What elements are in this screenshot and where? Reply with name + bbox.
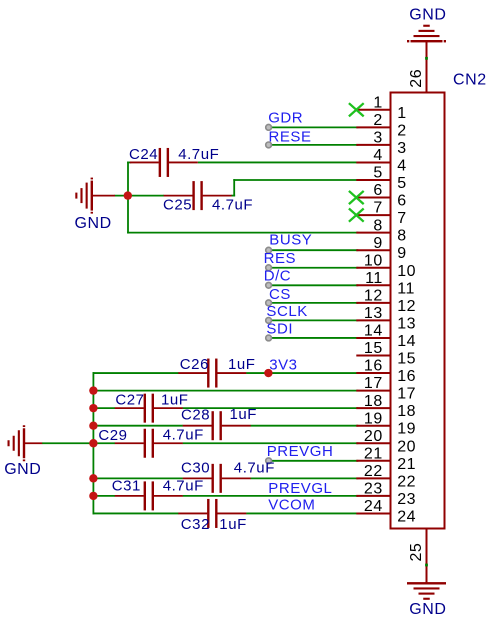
svg-text:11: 11 [365,270,383,287]
svg-text:7: 7 [373,200,382,217]
svg-text:5: 5 [373,165,382,182]
svg-text:22: 22 [397,473,416,490]
svg-text:2: 2 [373,112,382,129]
svg-text:8: 8 [373,217,382,234]
svg-text:1uF: 1uF [230,406,258,423]
svg-text:4: 4 [397,157,406,174]
svg-text:GND: GND [409,601,446,618]
svg-text:18: 18 [364,393,383,410]
svg-text:10: 10 [364,252,383,269]
svg-text:4.7uF: 4.7uF [178,146,219,163]
svg-text:15: 15 [364,340,383,357]
svg-text:4.7uF: 4.7uF [163,427,204,444]
svg-text:7: 7 [397,210,406,227]
svg-text:13: 13 [364,305,383,322]
svg-text:18: 18 [397,403,416,420]
svg-text:22: 22 [364,463,383,480]
svg-text:C32: C32 [181,516,210,533]
svg-text:C24: C24 [129,146,158,163]
svg-text:PREVGL: PREVGL [268,480,332,497]
svg-text:14: 14 [364,323,383,340]
svg-text:17: 17 [364,375,383,392]
svg-text:1uF: 1uF [219,516,247,533]
svg-text:25: 25 [408,543,425,562]
svg-text:C30: C30 [181,460,210,477]
svg-text:14: 14 [397,333,416,350]
svg-text:5: 5 [397,175,406,192]
svg-text:12: 12 [364,287,383,304]
svg-text:15: 15 [397,351,416,368]
svg-text:24: 24 [397,508,416,525]
svg-text:C26: C26 [180,356,209,373]
svg-text:19: 19 [397,421,416,438]
svg-text:3: 3 [397,140,406,157]
svg-text:C25: C25 [163,197,192,214]
svg-text:13: 13 [397,315,416,332]
svg-text:6: 6 [373,182,382,199]
svg-text:C29: C29 [98,427,127,444]
svg-text:BUSY: BUSY [269,232,312,249]
svg-text:26: 26 [408,69,425,88]
svg-text:RESE: RESE [269,129,312,146]
svg-text:9: 9 [373,235,382,252]
svg-text:PREVGH: PREVGH [267,443,334,460]
svg-text:3: 3 [373,130,382,147]
svg-text:19: 19 [364,410,383,427]
svg-text:9: 9 [397,245,406,262]
svg-text:20: 20 [397,438,416,455]
svg-text:1: 1 [373,94,382,111]
svg-text:SCLK: SCLK [266,303,307,320]
svg-text:4.7uF: 4.7uF [212,197,253,214]
svg-text:16: 16 [397,368,416,385]
svg-text:20: 20 [364,428,383,445]
svg-text:12: 12 [397,298,416,315]
svg-text:C27: C27 [115,392,144,409]
svg-text:GND: GND [4,461,41,478]
svg-text:2: 2 [397,122,406,139]
svg-text:3V3: 3V3 [269,356,297,373]
svg-text:SDI: SDI [266,320,293,337]
svg-text:C28: C28 [181,407,210,424]
svg-text:VCOM: VCOM [268,497,315,514]
svg-text:8: 8 [397,228,406,245]
svg-text:23: 23 [397,491,416,508]
svg-text:CS: CS [269,286,291,303]
svg-text:24: 24 [364,498,383,515]
svg-text:CN2: CN2 [453,72,486,89]
svg-text:23: 23 [364,481,383,498]
svg-text:6: 6 [397,193,406,210]
svg-text:1uF: 1uF [228,356,256,373]
svg-text:C31: C31 [112,477,141,494]
svg-text:4: 4 [373,147,382,164]
svg-text:11: 11 [397,280,415,297]
svg-text:21: 21 [364,445,383,462]
svg-text:GND: GND [409,6,446,23]
svg-text:21: 21 [397,456,416,473]
svg-text:GND: GND [75,215,112,232]
svg-text:10: 10 [397,263,416,280]
svg-text:1: 1 [397,105,406,122]
svg-text:4.7uF: 4.7uF [163,477,204,494]
svg-text:GDR: GDR [268,109,303,126]
svg-text:16: 16 [364,358,383,375]
svg-text:D/C: D/C [264,268,291,285]
svg-text:RES: RES [264,250,297,267]
svg-text:4.7uF: 4.7uF [234,460,275,477]
svg-text:17: 17 [397,386,416,403]
